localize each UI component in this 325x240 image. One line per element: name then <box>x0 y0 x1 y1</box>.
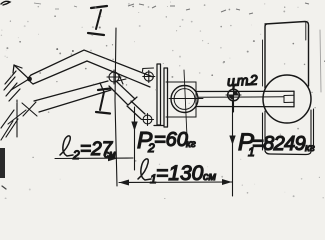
lower support hatching <box>1 100 26 140</box>
dimension l2 line <box>55 157 133 160</box>
dimension l1 left arrow <box>119 180 129 186</box>
tire top outline <box>265 22 309 89</box>
force P2 arrowhead <box>131 122 137 132</box>
svg-text:ц.т.2: ц.т.2 <box>227 72 259 90</box>
force P1 line <box>232 101 234 196</box>
svg-text:2: 2 <box>72 148 80 162</box>
dimension l2 arrow <box>108 155 118 161</box>
hub vertical centerline <box>184 70 187 137</box>
tire left edge double <box>262 40 264 86</box>
dimension l1 line <box>119 181 232 184</box>
bracket plate 1 <box>154 64 163 126</box>
label l2=27cm <box>60 136 116 162</box>
lower pivot circle C <box>142 114 154 126</box>
svg-text:=60: =60 <box>154 129 188 151</box>
svg-text:см: см <box>203 171 217 183</box>
tire lower left edge <box>263 111 266 151</box>
pivot A (upper arm pivot) <box>27 77 32 82</box>
hub outer circle <box>171 86 198 113</box>
axle bottom line <box>197 106 294 108</box>
bracket plate 2 <box>164 68 168 127</box>
svg-text:кг: кг <box>305 143 315 154</box>
tire right edge double <box>305 22 307 40</box>
page edge line right <box>320 30 321 92</box>
axle top line <box>197 90 294 92</box>
tire lower right edge <box>311 109 314 151</box>
center of gravity symbol <box>226 84 241 112</box>
lower link end X-brace <box>22 102 37 116</box>
joint B (arm/link joint, circle with cross) <box>107 70 126 84</box>
label P1=8249kg <box>238 129 315 159</box>
svg-text:=130: =130 <box>156 162 204 185</box>
hub horizontal centerline <box>169 98 203 100</box>
svg-text:кг: кг <box>186 139 196 150</box>
hub inner circle <box>174 89 195 110</box>
svg-text:=8249: =8249 <box>252 133 306 155</box>
hub housing rectangle <box>166 82 196 117</box>
tire big circle <box>263 75 311 123</box>
axle end cap <box>293 91 295 107</box>
arm end pivot circle D with cap <box>143 68 155 83</box>
label l1=130cm <box>138 159 217 186</box>
force P2 line <box>134 107 136 170</box>
svg-text:см: см <box>104 150 116 161</box>
long diagonal link (lower support to joint B) <box>34 81 111 112</box>
scan squiggle top left <box>1 1 10 5</box>
section label I top <box>88 6 107 35</box>
upper arm (bent capsule) <box>29 50 153 87</box>
tire bottom edge <box>265 151 311 155</box>
short diagonal link (joint B down to lower pivot) <box>109 81 145 119</box>
force P1 arrowhead <box>229 136 235 146</box>
section label I bottom <box>96 89 110 114</box>
axle end slot <box>284 95 294 102</box>
scan mark bottom left <box>2 186 6 189</box>
axle mid line <box>198 96 284 99</box>
section line I-I vertical <box>115 28 117 186</box>
upper support hatching <box>4 65 29 101</box>
scan smudge left edge <box>0 148 5 178</box>
label P2=60kg <box>137 127 196 155</box>
dimension l1 right arrow <box>222 179 232 185</box>
